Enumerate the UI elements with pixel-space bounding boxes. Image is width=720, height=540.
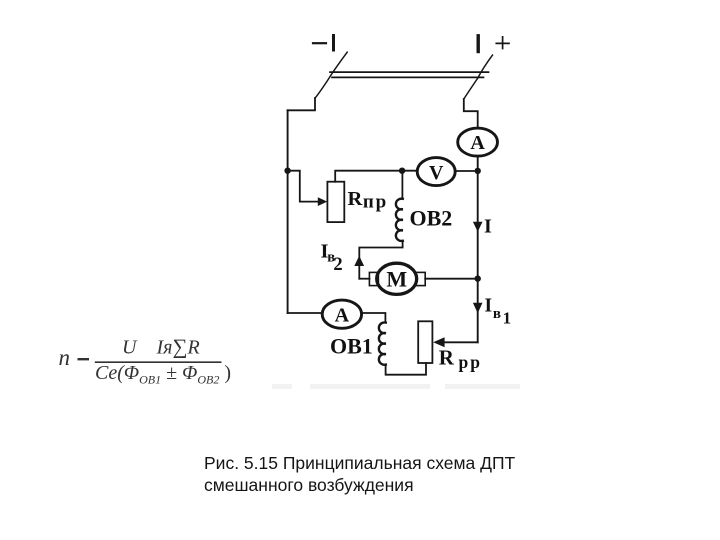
svg-text:Rрр: Rрр xyxy=(439,346,482,372)
node motor / right rail xyxy=(475,275,481,281)
wire to motor left brush xyxy=(359,278,369,280)
wire node to coil OB2 xyxy=(401,171,403,199)
rheostat Rpp wiper arrow xyxy=(444,341,478,343)
switch blade left xyxy=(315,52,347,98)
wire left rail to Rpr wiper xyxy=(288,171,318,202)
formula equals xyxy=(78,358,90,360)
wire from left blade to left rail xyxy=(288,98,315,110)
wire V left xyxy=(402,170,417,172)
voltmeter V xyxy=(417,158,455,186)
current arrow Iv1 (down) xyxy=(473,303,483,313)
ammeter A2 xyxy=(322,300,361,328)
plus terminal label xyxy=(496,37,509,49)
faint scan ghost band xyxy=(272,384,520,389)
wire V right xyxy=(455,170,474,172)
motor M xyxy=(377,263,417,294)
svg-text:Rпр: Rпр xyxy=(348,188,389,212)
switch blade right xyxy=(464,55,493,99)
minus terminal label xyxy=(313,42,326,44)
wire left rail to ammeter A2 xyxy=(288,312,323,314)
svg-text:A: A xyxy=(470,132,485,154)
svg-text:ОВ1: ОВ1 xyxy=(330,334,373,359)
current arrow Iv2 (up) xyxy=(354,256,364,266)
svg-text:Iв2: Iв2 xyxy=(321,241,343,275)
wire coil OB1 to rheostat Rpp xyxy=(386,363,426,375)
svg-text:A: A xyxy=(335,304,350,326)
wire from right blade to ammeter A1 xyxy=(464,99,478,128)
svg-text:U: U xyxy=(122,337,138,359)
coil OB1 xyxy=(379,322,386,364)
wire coil OB2 to motor xyxy=(359,241,402,279)
rheostat Rpr body xyxy=(327,182,344,222)
left terminal bar xyxy=(332,36,335,51)
wire rail to rheostat Rpr top xyxy=(335,171,402,182)
wire A2 to coil OB1 xyxy=(362,313,386,323)
coil OB2 xyxy=(396,199,403,241)
svg-text:V: V xyxy=(429,162,444,184)
knife switch bar (double line) xyxy=(330,71,489,73)
svg-text:Iя∑R: Iя∑R xyxy=(156,335,200,359)
right rail wire xyxy=(477,156,479,342)
ammeter A1 xyxy=(458,128,498,156)
svg-text:M: M xyxy=(386,267,407,292)
motor M right brush xyxy=(416,272,425,285)
plus terminal bar xyxy=(477,36,480,52)
svg-text:n: n xyxy=(59,345,71,370)
wire motor to right rail xyxy=(425,278,478,280)
node top of OB2 branch xyxy=(399,168,405,174)
caption xyxy=(204,453,515,496)
left rail wire xyxy=(287,110,289,313)
formula n = (U - Ia*sum R)/(Ce(F1 +- F2)) xyxy=(59,335,232,387)
rheostat Rpr wiper arrow xyxy=(318,197,327,206)
svg-text:I: I xyxy=(484,216,492,238)
formula fraction bar xyxy=(95,361,222,363)
node left rail xyxy=(284,168,290,174)
rheostat Rpp body xyxy=(418,321,432,363)
current arrow I (down) xyxy=(473,222,483,232)
svg-text:ОВ2: ОВ2 xyxy=(410,206,453,231)
motor M left brush xyxy=(369,272,378,285)
node right rail / voltmeter xyxy=(475,168,481,174)
svg-text:Ce(ΦОВ1 ± ΦОВ2 ): Ce(ΦОВ1 ± ΦОВ2 ) xyxy=(95,362,231,387)
svg-text:Iв1: Iв1 xyxy=(485,296,512,328)
